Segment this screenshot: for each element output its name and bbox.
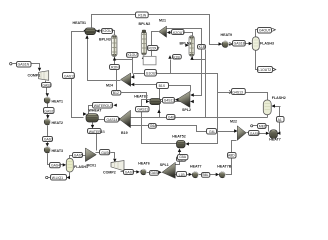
- heater WHEAT vessel: [86, 114, 98, 122]
- wire HEAT9 out to G4S1B to FLASH3: [229, 44, 250, 45]
- wire column1 bottoms to K1OUT and down to M24: [115, 57, 134, 78]
- stream box L1B: [177, 172, 187, 177]
- svg-text:BPLN1: BPLN1: [180, 41, 192, 45]
- heater HEAT6: [141, 169, 147, 175]
- arrow into FLASH1 left: [63, 163, 67, 166]
- stream box GAS5: [73, 153, 83, 158]
- mixer M21: [159, 26, 167, 37]
- svg-text:HEAT7: HEAT7: [269, 138, 281, 142]
- arrow into WHEAT left: [83, 112, 87, 115]
- heater HEAT1: [44, 97, 50, 103]
- heater HEAT9: [221, 41, 230, 47]
- wire mystery riser to G1OUT line: [170, 60, 172, 74]
- wire FLASH1 top to GAS5 to MC01: [70, 156, 87, 159]
- wire M22 apex to GAS8C to HEAT7C: [247, 133, 268, 134]
- wire FLASH3 bottom to L1OUT2: [256, 51, 258, 70]
- svg-text:G4S11: G4S11: [164, 98, 174, 102]
- svg-text:G6A: G6A: [150, 124, 158, 128]
- svg-text:FLASH2: FLASH2: [272, 96, 286, 100]
- svg-text:HEAT2: HEAT2: [52, 121, 64, 125]
- svg-text:GAS1N: GAS1N: [18, 62, 30, 66]
- svg-text:A8D: A8D: [228, 153, 235, 157]
- arrow down into HEAT1: [46, 93, 49, 97]
- heater HEAT2: [44, 119, 50, 125]
- svg-text:R1IN: R1IN: [138, 14, 146, 18]
- stream box A1: [277, 117, 285, 123]
- svg-text:G1OUT: G1OUT: [146, 72, 158, 76]
- arrowheads group placeholder: [38, 28, 281, 179]
- stream box R1IN: [136, 12, 149, 18]
- arrow down into COMP1: [38, 68, 41, 72]
- wire jog above SPL2: [169, 86, 191, 92]
- svg-text:WHEAT: WHEAT: [89, 108, 103, 112]
- open arrow after G4OUT: [272, 28, 275, 31]
- arrow up into HEAT51 bottom: [85, 35, 88, 39]
- svg-text:MC01: MC01: [87, 163, 97, 167]
- heater HEAT51 vessel: [84, 28, 97, 35]
- stream box GAS2B: [44, 108, 55, 114]
- svg-text:GAS13: GAS13: [64, 75, 75, 79]
- svg-text:GAS14: GAS14: [107, 118, 118, 122]
- svg-text:HEAT7: HEAT7: [190, 164, 202, 168]
- arrow up into column2 bottom: [142, 56, 145, 60]
- stream box G4OUT: [258, 28, 272, 34]
- wire COMP1 to GAS2 to HEAT1 chain: [46, 81, 47, 94]
- column BPLN2 caps: [142, 30, 146, 33]
- wire WHEAT top to WATERCUT: [89, 106, 93, 114]
- svg-text:B12: B12: [113, 91, 119, 95]
- wire A1 vertical FLASH2 to HEAT7C: [273, 107, 281, 134]
- stream box WATERCUT: [93, 103, 113, 109]
- arrow down into HEAT2: [46, 115, 49, 119]
- stream box G4L: [207, 129, 217, 135]
- svg-text:GAS3: GAS3: [44, 137, 53, 141]
- wire FLASH3 top to G4OUT: [256, 30, 258, 37]
- open arrow on G4S13 line: [229, 91, 232, 94]
- heater HEAT7: [192, 172, 198, 178]
- separator B19: [119, 110, 130, 128]
- feed symbol MED: [251, 125, 253, 127]
- wire M24 apex to HEAT51 bottom: [88, 36, 121, 81]
- arrow up at mystery riser: [168, 55, 171, 59]
- arrow into HEAT7C left: [266, 132, 270, 135]
- stream box GAS11: [136, 107, 150, 112]
- compressor COMP2: [111, 161, 124, 171]
- svg-text:HEAT52: HEAT52: [172, 134, 186, 138]
- wire HEAT51 left to GAS13 down to WHEAT: [72, 32, 86, 118]
- wire top main line HEAT51 top to HEAT9: [92, 15, 220, 45]
- heater HEAT82 vessel: [150, 98, 161, 104]
- wire inner top line down to SPL2 upper feed: [167, 29, 202, 96]
- expander MC01: [85, 148, 96, 162]
- arrow into HEAT7C right: [277, 132, 281, 135]
- stream box GAS4: [50, 163, 61, 168]
- stream box L1OUT2: [258, 67, 273, 73]
- column BPLN2: [141, 32, 146, 56]
- wire column1 top to K2OUT: [97, 31, 115, 36]
- wire B19 up to H2 box: [159, 89, 161, 118]
- stream box K2OUT2: [172, 30, 185, 35]
- stream box GAS13: [63, 73, 76, 79]
- svg-text:GAS2: GAS2: [42, 83, 51, 87]
- wire HEAT1 to GAS2B to HEAT2: [47, 104, 49, 119]
- wire G4B line: [147, 117, 217, 119]
- svg-text:HEAT7B: HEAT7B: [217, 164, 232, 168]
- arrow into M24 upper: [131, 75, 135, 78]
- stream box GAS14: [105, 117, 119, 123]
- svg-text:COMP1: COMP1: [28, 74, 41, 78]
- open arrow after HEAT9: [229, 43, 232, 46]
- heater HEAT7C vessel: [270, 130, 278, 139]
- heater HEAT52 vessel: [177, 140, 186, 148]
- wire COMP2 to GAS7: [121, 171, 137, 173]
- svg-text:HEAT51: HEAT51: [73, 21, 87, 25]
- wire HEAT2 down to GAS3: [47, 126, 49, 146]
- stream box GAS2: [42, 83, 52, 88]
- svg-text:L1OUT2: L1OUT2: [258, 68, 271, 72]
- svg-text:GAS8: GAS8: [150, 171, 159, 175]
- column BPLN1 caps: [190, 36, 194, 38]
- open arrow after L1OUT2: [273, 68, 276, 71]
- stream box GAS8C: [249, 131, 260, 136]
- arrow into HEAT51 right: [96, 29, 100, 32]
- arrow into WLIQ1 box: [67, 176, 71, 179]
- svg-text:G4B: G4B: [168, 116, 176, 120]
- stream box K2OUT: [102, 29, 114, 34]
- stream box GAS8B: [150, 171, 160, 176]
- column BPLN3: [112, 35, 118, 57]
- stream box H2: [157, 83, 169, 89]
- arrow into M22 left: [234, 129, 238, 132]
- svg-text:K1OUT: K1OUT: [128, 53, 139, 57]
- arrow up into column3 bottom: [190, 56, 193, 60]
- arrow into M24 lower: [131, 83, 135, 86]
- svg-text:K2OUT: K2OUT: [173, 31, 184, 35]
- svg-text:GAS2: GAS2: [44, 110, 53, 114]
- arrow down into WATER1B: [91, 125, 94, 129]
- flash FLASH2: [263, 100, 271, 115]
- wire B12 up through R2IN to column1 bottom: [115, 59, 117, 91]
- svg-text:M22: M22: [230, 120, 237, 124]
- arrow glyph right of WATERCUT: [113, 104, 116, 107]
- arrow into SPL2 lower feed: [190, 100, 194, 103]
- svg-text:R2IN: R2IN: [111, 66, 119, 70]
- stream box GAS3: [43, 137, 54, 142]
- arrow into HEAT6 left: [136, 170, 140, 173]
- column BPLN3 caps: [112, 36, 116, 38]
- svg-text:SPL2: SPL2: [182, 108, 191, 112]
- svg-text:W.LIQ1: W.LIQ1: [52, 176, 63, 180]
- feed symbol GAS1: [10, 63, 12, 65]
- arrow into B19 apex: [119, 118, 123, 121]
- wire K1B loop down to SPL2 lower feed: [205, 50, 207, 118]
- stream box K1B right of column3: [198, 45, 206, 50]
- stream box G4S11: [163, 98, 175, 104]
- svg-text:COMP2: COMP2: [103, 171, 116, 175]
- arrow up into column1 bottom: [113, 57, 116, 61]
- stream box G4S1B: [233, 41, 246, 47]
- heater HEAT3: [44, 147, 50, 153]
- svg-text:GAS11: GAS11: [137, 108, 148, 112]
- wire HEAT3 down right to GAS4 to FLASH1: [48, 154, 65, 165]
- wire WHEAT bottom to WATER1B: [92, 123, 94, 126]
- svg-text:WATEROUT: WATEROUT: [94, 104, 113, 108]
- arrow into HEAT82 left: [146, 100, 149, 103]
- stream box R2IN: [110, 65, 120, 70]
- arrow into HEAT52 right: [185, 142, 189, 145]
- svg-text:K1B: K1B: [199, 45, 206, 49]
- stream box G4S13: [232, 89, 246, 95]
- svg-text:L1B: L1B: [179, 173, 186, 177]
- svg-text:HEAT3: HEAT3: [52, 149, 64, 153]
- arrow into FLASH2 right: [272, 104, 276, 107]
- wire B12 to HEAT82: [121, 93, 147, 102]
- stream box MED: [258, 124, 267, 129]
- svg-text:G4L: G4L: [209, 130, 216, 134]
- wire column3 bottoms loop: [193, 50, 206, 60]
- svg-text:HEAT9: HEAT9: [221, 33, 233, 37]
- wire B19 base long line to FLASH2 bottom: [131, 115, 268, 118]
- svg-text:GAS4: GAS4: [51, 164, 60, 168]
- arrow down into HEAT3: [46, 143, 49, 147]
- stream box K1OUT: [127, 53, 139, 58]
- flash FLASH3: [252, 37, 259, 51]
- svg-text:GAS1B: GAS1B: [234, 42, 246, 46]
- arrow into M21 base: [167, 31, 171, 34]
- stream box G6A: [149, 124, 158, 129]
- stream box WATER1B: [88, 129, 106, 134]
- svg-text:GAS8: GAS8: [250, 132, 259, 136]
- arrow into HEAT7 left: [189, 173, 193, 176]
- svg-text:BPLN2: BPLN2: [139, 22, 151, 26]
- wire long G1OUT line and down to G4S13 line into FLASH2: [134, 74, 218, 144]
- wire SPL1 top out to G5A up to HEAT52: [176, 152, 180, 165]
- heater HEAT7B: [219, 172, 225, 178]
- svg-text:BPLN3: BPLN3: [99, 38, 111, 42]
- svg-text:MED: MED: [259, 125, 267, 129]
- splitter SPL2: [177, 91, 190, 107]
- svg-text:SPL1: SPL1: [160, 163, 169, 167]
- svg-text:M24: M24: [106, 84, 113, 88]
- svg-text:GAS6: GAS6: [101, 151, 110, 155]
- stream box B12: [112, 91, 121, 96]
- svg-text:B19: B19: [121, 131, 128, 135]
- svg-text:M21: M21: [159, 19, 166, 23]
- svg-text:GAS5: GAS5: [74, 154, 83, 158]
- splitter SPL1: [162, 162, 175, 178]
- svg-text:HEAT6: HEAT6: [138, 162, 150, 166]
- stream box G5A2 riser label: [178, 155, 188, 160]
- svg-text:GAS7: GAS7: [125, 170, 134, 174]
- stream box GAS7: [124, 170, 134, 175]
- svg-text:B6L: B6L: [203, 173, 209, 177]
- arrow into HEAT7B left: [216, 173, 220, 176]
- wire G4S11 to big vertical down to HEAT52: [142, 100, 177, 144]
- wire HEAT6 to GAS8B to SPL1: [147, 172, 161, 174]
- arrow into FLASH3 left: [249, 42, 253, 45]
- stream box WLIQ1: [51, 175, 67, 181]
- arrow into HEAT9: [219, 42, 223, 45]
- feed symbol LIQ1 end: [46, 176, 48, 178]
- wire H2 box to M24: [135, 84, 158, 86]
- wire WHEAT right to GAS14 to B19: [99, 119, 120, 121]
- stream box G5A: [177, 157, 187, 162]
- column BPLN2 center stripe: [143, 33, 144, 54]
- svg-text:G5A: G5A: [179, 155, 187, 159]
- svg-text:R2OUT: R2OUT: [148, 47, 160, 51]
- block HX small square: [143, 56, 156, 64]
- svg-text:B1X: B1X: [159, 84, 166, 88]
- wire MC01 to GAS6 down to COMP2: [96, 153, 115, 159]
- arrow up into H2 box: [157, 110, 160, 114]
- wire feed GAS1 to COMP1: [13, 64, 40, 68]
- mixer M22: [237, 126, 246, 141]
- svg-text:HEAT1: HEAT1: [52, 99, 64, 103]
- wire WATER1B down: [96, 134, 98, 151]
- arrow into SPL2 upper feed: [190, 93, 194, 96]
- stream box B6L: [202, 173, 210, 178]
- wire M21 apex left down through R2OUT box to column2 bottom loop: [144, 32, 159, 60]
- stream box A8D: [228, 153, 237, 159]
- stream box GAS1N: [17, 62, 32, 68]
- flash FLASH1: [66, 158, 73, 172]
- stream box GAS6: [100, 150, 111, 155]
- svg-text:FLASH3: FLASH3: [260, 42, 274, 46]
- arrow into G4S11 from SPL2 apex: [175, 98, 179, 101]
- svg-text:A1: A1: [278, 118, 282, 122]
- svg-text:G4S13: G4S13: [232, 91, 243, 95]
- column BPLN3 center stripe: [114, 37, 115, 56]
- wire B19 lower line through G6A to G4L to M22: [131, 126, 236, 132]
- svg-text:WATER1B: WATER1B: [89, 130, 106, 134]
- compressor COMP1: [39, 71, 49, 81]
- svg-text:G4OUT: G4OUT: [259, 28, 271, 32]
- wire MED to HEAT7C top: [253, 126, 269, 132]
- arrow into column3 left feed: [185, 44, 189, 47]
- wire column3 top to K2OUT2 to M21: [168, 33, 193, 36]
- wire HEAT82 right to FLASH2: [161, 101, 191, 103]
- stream box G1OUT: [145, 70, 158, 77]
- wire SPL1 bottom out through L1B HEAT7 B6L HEAT7B: [176, 174, 217, 176]
- arrow into SPL1 apex: [158, 171, 162, 174]
- wire FLASH1 bottom to LIQ1: [48, 173, 70, 178]
- svg-text:K2B: K2B: [173, 56, 180, 60]
- column BPLN1 center stripe: [191, 37, 192, 55]
- stream box R2OUT below M21: [148, 46, 160, 51]
- wire HEAT7B right up through A8D to M22: [226, 141, 237, 175]
- stream box G4B: [167, 115, 176, 120]
- arrow down into COMP2: [113, 159, 116, 163]
- stream box mystery K2B: [173, 55, 182, 60]
- svg-text:K2OUT: K2OUT: [102, 29, 113, 33]
- column BPLN1: [189, 36, 194, 57]
- mixer M24: [121, 73, 131, 86]
- arrow up into HEAT52 bottom: [178, 149, 181, 153]
- svg-text:HEAT82: HEAT82: [134, 94, 148, 98]
